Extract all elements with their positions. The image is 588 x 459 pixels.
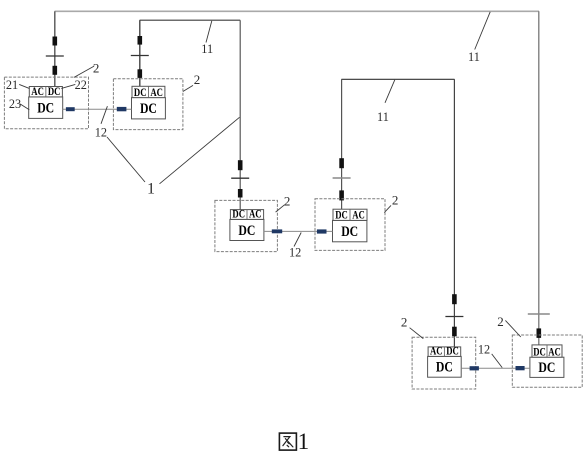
svg-text:DC: DC bbox=[140, 101, 157, 117]
svg-text:DC: DC bbox=[341, 224, 358, 240]
svg-text:AC: AC bbox=[31, 84, 44, 98]
svg-text:22: 22 bbox=[75, 78, 87, 92]
svg-text:AC: AC bbox=[249, 207, 262, 221]
svg-text:1: 1 bbox=[298, 429, 310, 454]
svg-text:2: 2 bbox=[194, 72, 201, 87]
svg-text:12: 12 bbox=[289, 246, 301, 260]
svg-text:DC: DC bbox=[538, 360, 555, 376]
svg-text:2: 2 bbox=[401, 315, 408, 330]
svg-text:DC: DC bbox=[134, 85, 147, 99]
svg-text:11: 11 bbox=[377, 110, 389, 124]
svg-text:DC: DC bbox=[446, 344, 459, 358]
svg-text:DC: DC bbox=[232, 207, 245, 221]
svg-text:DC: DC bbox=[533, 344, 546, 358]
svg-text:2: 2 bbox=[497, 314, 504, 329]
svg-text:2: 2 bbox=[93, 60, 100, 75]
svg-text:DC: DC bbox=[436, 360, 453, 376]
svg-text:AC: AC bbox=[150, 85, 163, 99]
svg-text:AC: AC bbox=[430, 344, 443, 358]
svg-text:DC: DC bbox=[48, 84, 61, 98]
svg-text:2: 2 bbox=[284, 194, 291, 209]
svg-text:DC: DC bbox=[238, 223, 255, 239]
svg-text:12: 12 bbox=[95, 126, 107, 140]
svg-text:2: 2 bbox=[392, 193, 399, 208]
svg-text:12: 12 bbox=[478, 343, 490, 357]
svg-text:23: 23 bbox=[9, 97, 21, 111]
svg-text:DC: DC bbox=[335, 208, 348, 222]
svg-text:AC: AC bbox=[352, 208, 365, 222]
svg-text:AC: AC bbox=[548, 344, 561, 358]
svg-text:1: 1 bbox=[147, 180, 155, 197]
svg-text:11: 11 bbox=[468, 50, 480, 64]
svg-text:DC: DC bbox=[37, 100, 54, 116]
svg-text:11: 11 bbox=[201, 42, 213, 56]
svg-text:21: 21 bbox=[6, 78, 18, 92]
